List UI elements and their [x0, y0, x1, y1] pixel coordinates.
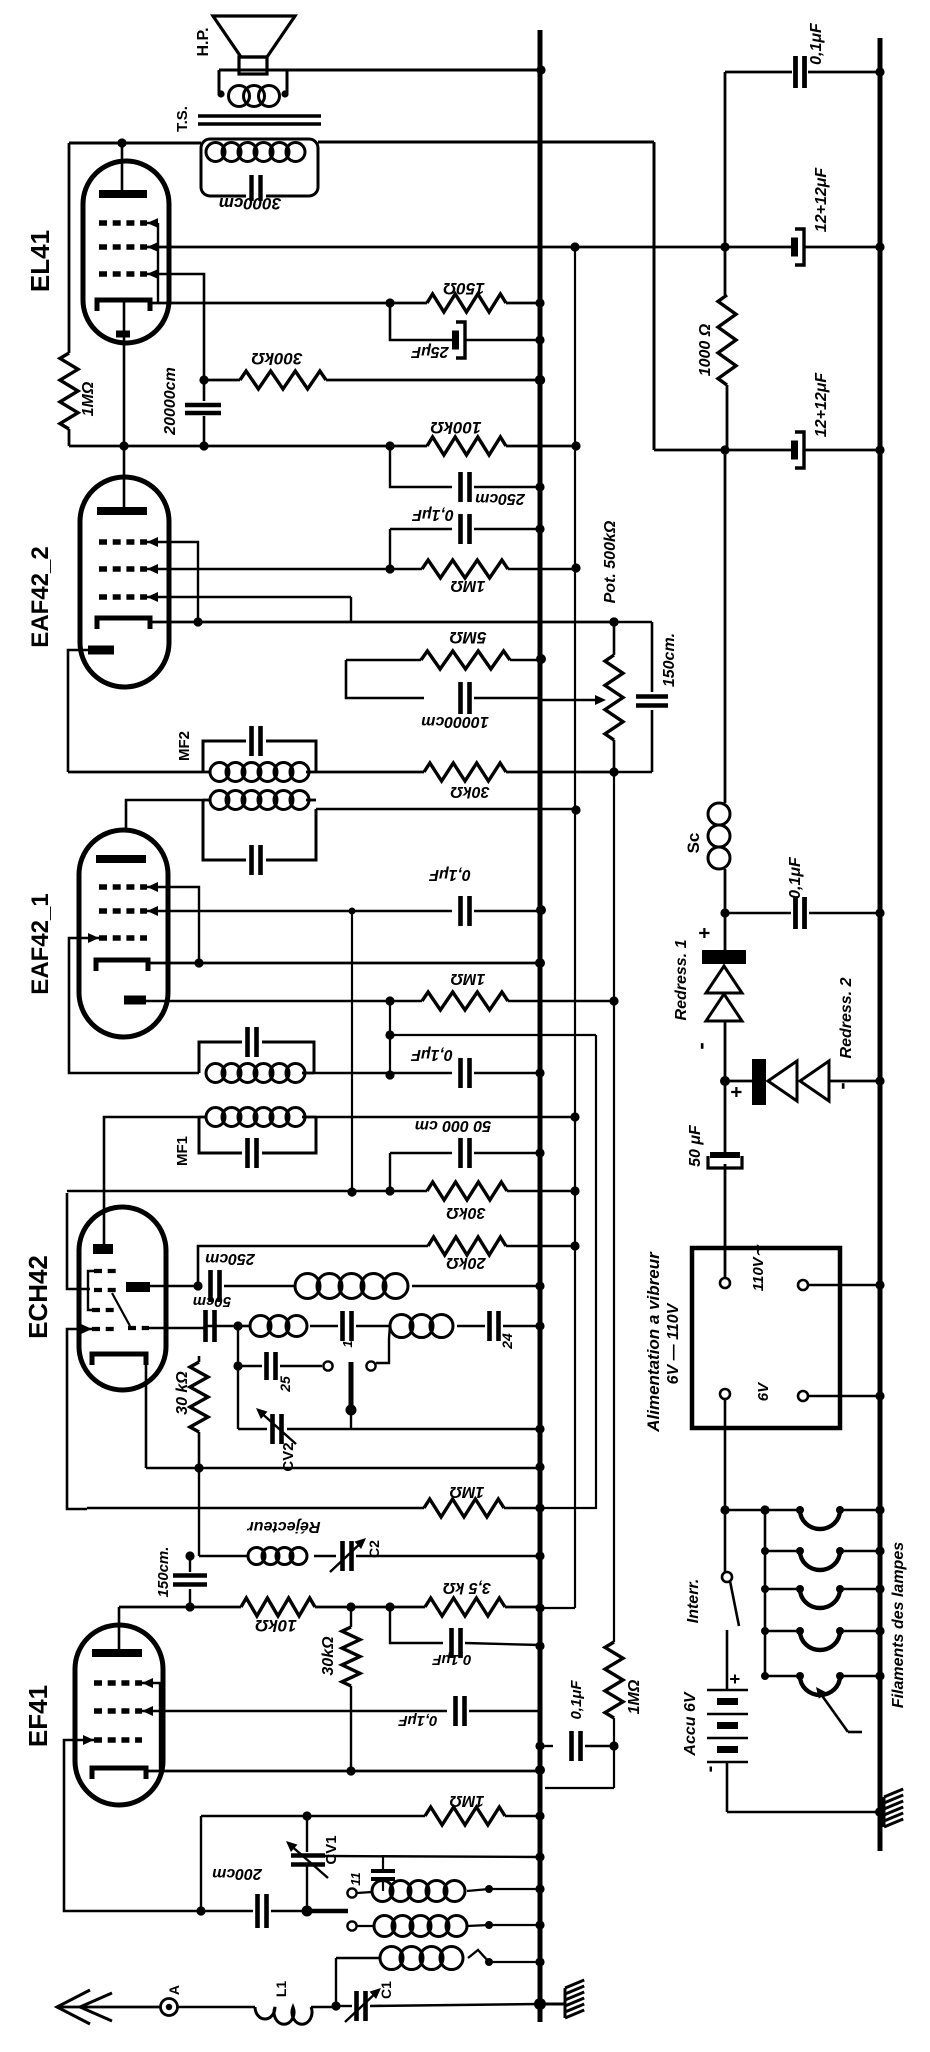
EAF42_1 grid g3: [99, 882, 158, 892]
terminal ant coil 2: [347, 1921, 374, 1930]
label A: [166, 1985, 182, 1995]
svg-text:Filaments des lampes: Filaments des lampes: [890, 1542, 907, 1708]
label 30kohm EF41: [320, 1636, 337, 1676]
resistor 1Mohm (osc): [425, 1807, 505, 1825]
wire plate decoupling branch: [390, 446, 452, 487]
wire raw B+ line y450: [654, 445, 792, 454]
svg-text:ECH42: ECH42: [23, 1255, 53, 1339]
label plus redress1: [694, 927, 716, 939]
junction rect node: [720, 1076, 730, 1086]
wire EAF42_1 diode line: [146, 996, 422, 1005]
resistor 1Mohm (EAF42_2 grid): [422, 560, 508, 578]
wire cap to right bus y247: [804, 242, 885, 251]
label 0.1uF EF41a: [432, 1651, 472, 1668]
wire 10000cm to wiper: [474, 697, 540, 700]
EAF42_2 grid g2: [99, 564, 158, 574]
wire feedback to 24: [457, 1325, 485, 1328]
svg-text:EL41: EL41: [25, 230, 55, 292]
svg-text:0,1μF: 0,1μF: [428, 866, 471, 883]
EAF42_2 cathode: [97, 618, 150, 629]
svg-text:+: +: [725, 1674, 745, 1685]
transformer T.S. core: [198, 116, 321, 124]
label 11: [348, 1872, 363, 1886]
svg-text:-: -: [829, 1082, 854, 1089]
vibrator terminal 6V right: [798, 1391, 885, 1401]
svg-text:24: 24: [499, 1333, 515, 1350]
wire filament rail: [764, 1510, 767, 1676]
vibrator terminal 110V top-left: [720, 1278, 730, 1288]
inductor antenna coil 2: [374, 1916, 545, 1937]
wire 10k line to 3.5k: [315, 1602, 425, 1611]
EAF42_2 grid g3: [99, 537, 158, 547]
label Rejecteur: [247, 1518, 321, 1535]
label Alimentation: [644, 1251, 663, 1433]
wire screens line x575: [541, 247, 575, 1608]
capacitor 250cm (EAF42_2): [461, 472, 470, 502]
filament 1: [761, 1505, 885, 1529]
wire diode RC links x390: [385, 1001, 394, 1080]
wire osc tank to bus: [412, 1281, 545, 1290]
filament 3: [761, 1584, 885, 1608]
tube EAF42_1: [79, 830, 168, 1037]
wire ECH42 g1 AVC: [67, 1329, 92, 1509]
wire EL41 g2 line: [147, 246, 540, 249]
svg-text:1: 1: [340, 1340, 355, 1347]
wire g2 cap to bus: [469, 1710, 540, 1713]
wire EF41 g1 lead: [64, 1740, 190, 1911]
wire 3.5k to bus: [505, 1603, 545, 1612]
label 200cm: [212, 1865, 263, 1882]
wire pot top to 150cm: [614, 621, 652, 624]
label Redress. 2: [838, 977, 855, 1058]
label minus battery: [699, 1766, 721, 1773]
label 6V-110V: [665, 1302, 682, 1384]
wire vibrator 6V down: [720, 1399, 729, 1572]
EL41 grid g3: [99, 218, 158, 228]
wire 0.1uF to bus y1645: [465, 1641, 545, 1650]
wire 30k to pot bottom: [506, 771, 614, 774]
svg-text:50cm: 50cm: [193, 1293, 231, 1310]
label minus redress1: [688, 1042, 713, 1049]
svg-text:0,1μF: 0,1μF: [432, 1651, 472, 1668]
transformer MF2 secondary box: [203, 741, 316, 772]
transformer T.S. primary coil: [206, 143, 305, 162]
wire pot wiper arrow: [540, 695, 606, 705]
wire EF41 cathode line: [146, 1765, 545, 1775]
label 0.1uF EAF42_1 g2: [428, 866, 471, 883]
label EL41: [25, 230, 55, 292]
wire osc drop x201: [196, 1816, 205, 1916]
label ECH42: [23, 1255, 53, 1339]
capacitor 50000cm: [461, 1138, 470, 1168]
svg-text:Alimentation a vibreur: Alimentation a vibreur: [644, 1251, 663, 1433]
svg-text:H.P.: H.P.: [195, 27, 212, 56]
ECH42 cathode: [92, 1354, 146, 1365]
CV2 arrow: [256, 1408, 296, 1444]
svg-text:1MΩ: 1MΩ: [80, 381, 97, 416]
tube EF41: [75, 1625, 163, 1805]
capacitor 1 (padder): [310, 1311, 390, 1341]
label CV1: [323, 1835, 340, 1864]
label MF2: [176, 731, 193, 761]
label minus redress2: [829, 1082, 854, 1089]
wire osc line y1816: [201, 1811, 425, 1820]
svg-text:+: +: [694, 927, 716, 939]
capacitor 150cm (pot): [636, 622, 668, 772]
svg-text:0,1μF: 0,1μF: [568, 1680, 585, 1720]
svg-text:5MΩ: 5MΩ: [450, 628, 487, 647]
svg-text:Interr.: Interr.: [685, 1579, 702, 1623]
svg-text:C2: C2: [366, 1540, 382, 1558]
svg-text:0,1μF: 0,1μF: [808, 22, 825, 65]
wire g2 bypass EF41: [390, 1607, 443, 1643]
inductor osc grid coil: [240, 1316, 307, 1337]
wire 30k screen to x575: [507, 1186, 580, 1195]
svg-text:1MΩ: 1MΩ: [449, 1792, 484, 1809]
wire 25uF branch: [390, 303, 453, 340]
wire battery to ground: [727, 1807, 885, 1817]
svg-text:30kΩ: 30kΩ: [450, 783, 490, 800]
wire osc cathode line y1468: [146, 1462, 545, 1472]
svg-text:12+12μF: 12+12μF: [813, 167, 830, 233]
wire speaker top line: [219, 65, 546, 93]
wire EAF42_1 g3 link: [147, 887, 204, 968]
label 0.1uF rect: [787, 856, 804, 899]
label 24: [499, 1333, 515, 1350]
capacitor 12+12uF lower: [791, 432, 804, 468]
wire MF2 secondary line to 30k: [316, 771, 424, 774]
wire MF1 primary right to screens: [316, 1112, 580, 1121]
tube EL41: [83, 161, 169, 343]
wire 50000cm to bus: [474, 1148, 545, 1157]
wire screen node line y247 right: [540, 242, 792, 251]
EAF42_1 diode plate: [124, 996, 146, 1005]
label Filaments des lampes: [890, 1542, 907, 1708]
wire 0.1uF line (rect): [720, 908, 791, 917]
label plus battery: [725, 1674, 745, 1685]
svg-text:CV1: CV1: [323, 1835, 340, 1864]
EAF42_2 diode plate: [88, 646, 114, 655]
svg-text:Réjecteur: Réjecteur: [247, 1518, 321, 1535]
resistor 1000ohm: [718, 295, 736, 385]
label Redress. 1: [673, 939, 690, 1020]
speaker voice coil: [217, 86, 288, 107]
wire 1M osc to bus: [505, 1811, 545, 1820]
svg-text:Redress. 2: Redress. 2: [838, 977, 855, 1058]
wire EF41 g2 line: [142, 1710, 447, 1713]
transformer T.S. primary box: [201, 139, 318, 196]
resistor 300kohm: [240, 371, 326, 389]
EL41 grid g1: [99, 269, 158, 279]
svg-text:Pot. 500kΩ: Pot. 500kΩ: [602, 520, 619, 603]
wire 20k to x575: [506, 1241, 580, 1250]
capacitor 0.1uF (EAF42_1 g2): [461, 896, 470, 926]
wire rejecteur drop x199: [198, 1468, 200, 1556]
capacitor 0.1uF (EF41 g2): [456, 1696, 465, 1726]
wire 1M to bus: [504, 1503, 545, 1512]
wire antenna line: [178, 2006, 255, 2009]
wire grid rail y446: [69, 441, 427, 450]
capacitor CV1: [291, 1816, 325, 1917]
svg-text:Accu 6V: Accu 6V: [682, 1691, 699, 1756]
label 5Mohm: [450, 628, 487, 647]
label 50uF: [687, 1124, 704, 1167]
svg-text:3,5 kΩ: 3,5 kΩ: [442, 1579, 491, 1596]
svg-text:50 000 cm: 50 000 cm: [415, 1117, 492, 1134]
resistor 30kohm (AVC): [424, 763, 506, 781]
inductor Sc choke: [708, 450, 730, 950]
svg-text:Sc: Sc: [684, 833, 703, 854]
label 50cm: [193, 1293, 231, 1310]
EF41 grid g3: [94, 1678, 153, 1688]
wire 250cm to bus: [474, 482, 545, 491]
svg-text:Redress. 1: Redress. 1: [673, 939, 690, 1020]
svg-text:110V∼: 110V∼: [750, 1244, 767, 1291]
capacitor 50cm: [206, 1310, 215, 1342]
label 1Mohm EL41: [80, 381, 97, 416]
wire 150ohm to bus: [506, 298, 545, 307]
label 110V: [750, 1244, 767, 1291]
potentiometer Pot. 500kohm: [605, 617, 623, 772]
label EAF42_1: [27, 893, 54, 994]
label 1Mohm ECH42: [449, 1483, 484, 1500]
C2 arrow: [330, 1538, 366, 1572]
svg-text:12+12μF: 12+12μF: [813, 372, 830, 438]
wire 0.1uF top line: [725, 71, 792, 74]
svg-text:30 kΩ: 30 kΩ: [174, 1371, 191, 1415]
svg-text:150cm.: 150cm.: [155, 1547, 172, 1598]
wire MF1 primary left to ECH42 plate: [104, 1117, 199, 1244]
resistor 1Mohm (diode load): [422, 992, 508, 1010]
svg-text:250cm: 250cm: [205, 1250, 256, 1267]
wire to right bus y913: [809, 908, 885, 917]
svg-text:250cm: 250cm: [475, 490, 526, 507]
label Pot. 500kohm: [602, 520, 619, 603]
svg-text:20000cm: 20000cm: [162, 367, 179, 436]
wire ECH42 cathode drop: [145, 1360, 148, 1468]
label 6V: [755, 1381, 772, 1401]
wire feedback coil left drop: [389, 1326, 390, 1338]
svg-text:0,1μF: 0,1μF: [787, 856, 804, 899]
label Accu 6V: [682, 1691, 699, 1756]
EAF42_1 cathode: [96, 960, 148, 971]
svg-text:10000cm: 10000cm: [421, 713, 489, 730]
label 1: [340, 1340, 355, 1347]
label 1Mohm x614: [626, 1679, 643, 1714]
EL41 cathode: [97, 300, 150, 311]
EL41 heater bar: [116, 331, 130, 338]
EF41 cathode: [92, 1768, 146, 1779]
svg-text:C1: C1: [378, 1981, 394, 1999]
svg-text:L1: L1: [273, 1981, 289, 1998]
wire B+ right bus (vertical): [878, 38, 883, 1851]
capacitor C2: [343, 1541, 545, 1571]
label EF41: [23, 1685, 53, 1747]
wire 50000cm branch: [385, 1153, 452, 1196]
wire EL41 g3 to cathode: [147, 223, 158, 303]
EL41 plate: [99, 143, 147, 198]
label 3.5kohm: [442, 1579, 491, 1596]
label 1000ohm: [697, 323, 714, 376]
resistor 1Mohm (ECH42 grid): [424, 1499, 504, 1517]
wire to right bus top: [808, 67, 885, 76]
wire 25uF to bus: [466, 335, 545, 344]
label 1Mohm diode: [450, 970, 485, 987]
label 0.1uF EAF42_2: [411, 506, 454, 523]
terminal switch: [366, 1338, 389, 1371]
resistor 5Mohm: [346, 651, 510, 669]
svg-text:25: 25: [277, 1376, 293, 1393]
label 1Mohm osc: [449, 1792, 484, 1809]
label 30kohm cathode: [174, 1371, 191, 1415]
wire EAF42_2 g1 to cathode link: [147, 597, 351, 622]
inductor L1: [255, 2007, 336, 2024]
resistor 3.5kohm: [425, 1598, 505, 1616]
wire EL41 cathode line: [150, 298, 427, 307]
svg-text:200cm: 200cm: [212, 1865, 263, 1882]
svg-text:6V: 6V: [755, 1381, 772, 1401]
rectifier Redress.2: [725, 1059, 885, 1105]
CV1 arrow: [286, 1841, 328, 1878]
wire 0.1uF MF1 to bus: [474, 1068, 545, 1077]
capacitor 50uF: [708, 1081, 742, 1277]
svg-text:3000cm: 3000cm: [219, 194, 281, 213]
filament 4: [761, 1626, 885, 1650]
wire cap to right bus y450: [804, 445, 885, 454]
label 0.1uF top right: [808, 22, 825, 65]
resistor 10kohm: [241, 1598, 315, 1616]
svg-text:MF2: MF2: [176, 731, 193, 761]
junction bus bottom: [534, 1998, 546, 2010]
resistor 30kohm (ECH42 cathode): [190, 1356, 208, 1468]
wire filter feed x725: [720, 72, 729, 295]
capacitor 150cm (EF41): [173, 1551, 207, 1611]
svg-text:300kΩ: 300kΩ: [251, 349, 302, 368]
EAF42_1 grid g1: [88, 933, 147, 943]
label 150cm pot: [661, 633, 678, 687]
EL41 grid g2: [99, 242, 158, 252]
resistor 30kohm (ECH42 screen): [427, 1182, 507, 1200]
wire EL41 cathode drop / EAF42_2 plate riser: [123, 300, 126, 508]
label 10000cm: [421, 713, 489, 730]
wire 1M bottom: [545, 1718, 619, 1788]
resistor 100kohm: [427, 437, 506, 455]
svg-text:MF1: MF1: [174, 1136, 191, 1166]
wire g2 bypass to bus: [474, 905, 546, 915]
capacitor 0.1uF (EF41 plate side): [452, 1628, 461, 1658]
label 0.1uF EF41b: [398, 1712, 438, 1729]
resistor 150ohm: [427, 294, 506, 312]
wire main chassis bus (vertical): [538, 30, 543, 2022]
wire EAF42_2 cathode line to pot: [150, 617, 619, 626]
wire g1 node: [199, 375, 240, 384]
svg-text:1MΩ: 1MΩ: [450, 970, 485, 987]
resistor 1Mohm (EL41 grid): [60, 143, 78, 446]
EF41 grid g2: [94, 1706, 153, 1716]
inductor Rejecteur: [199, 1548, 336, 1565]
wire 300kohm to bus: [326, 375, 545, 385]
antenna symbol: [57, 1990, 160, 2024]
svg-text:T.S.: T.S.: [174, 106, 191, 132]
svg-text:EAF42_2: EAF42_2: [27, 546, 54, 647]
capacitor 0.1uF (x614): [535, 1731, 614, 1761]
label 250cm osc: [205, 1250, 256, 1267]
EF41 plate: [92, 1607, 142, 1657]
wire EAF42_1 g2 line: [147, 908, 452, 915]
capacitor 12+12uF upper: [791, 229, 804, 265]
EAF42_1 plate: [96, 855, 146, 863]
svg-text:11: 11: [348, 1872, 363, 1886]
svg-text:6V — 110V: 6V — 110V: [665, 1302, 682, 1384]
wire screen feed x352: [347, 911, 356, 1197]
battery Accu 6V: [707, 1684, 748, 1812]
ECH42 triode plate: [126, 1282, 197, 1292]
label 100kohm: [430, 418, 481, 437]
capacitor CV2: [238, 1414, 545, 1444]
wire 1Mohm to AF line: [508, 1000, 614, 1003]
wire AVC line y1508: [87, 1507, 424, 1510]
wire 100kohm to screens line: [506, 441, 581, 450]
capacitor MF2 secondary: [252, 726, 261, 756]
ECH42 screen grids: [88, 1271, 117, 1310]
svg-text:150cm.: 150cm.: [661, 633, 678, 687]
label H.P.: [195, 27, 212, 56]
label 150ohm: [443, 279, 485, 298]
label C2: [366, 1540, 382, 1558]
svg-text:-: -: [688, 1042, 713, 1049]
transformer MF1 secondary coil: [206, 1064, 314, 1083]
transformer MF2 primary box: [203, 800, 316, 860]
wire g2 bypass branch: [390, 529, 452, 569]
C1 arrow: [345, 1988, 381, 2022]
svg-text:A: A: [166, 1985, 182, 1995]
EAF42_1 grid g2: [99, 906, 158, 916]
label 10kohm: [255, 1616, 297, 1635]
wire 1000ohm bottom: [726, 385, 729, 450]
svg-text:30kΩ: 30kΩ: [446, 1204, 486, 1221]
wire AF line x614: [609, 772, 618, 1642]
wire EF41 g3 link: [142, 1683, 160, 1771]
svg-text:30kΩ: 30kΩ: [320, 1636, 337, 1676]
capacitor 11 (trimmer): [371, 1857, 395, 1891]
wire diode lead EAF42_2: [68, 650, 88, 772]
label 30kohm screen: [446, 1204, 486, 1221]
label 50000cm: [415, 1117, 492, 1134]
svg-text:EAF42_1: EAF42_1: [27, 893, 54, 994]
speaker magnet: [239, 57, 267, 74]
label 150cm EF41: [155, 1547, 172, 1598]
svg-text:25μF: 25μF: [410, 343, 449, 360]
transformer MF2 primary coil: [203, 791, 316, 810]
svg-text:20kΩ: 20kΩ: [446, 1254, 487, 1271]
svg-text:EF41: EF41: [23, 1685, 53, 1747]
wire 1Mohm to screens line: [508, 563, 581, 572]
svg-text:0,1μF: 0,1μF: [410, 1046, 453, 1063]
svg-text:50 μF: 50 μF: [687, 1124, 704, 1167]
EAF42_2 plate: [97, 507, 147, 515]
wire 24 to bus: [503, 1321, 545, 1330]
capacitor 0.1uF top right: [796, 56, 805, 88]
label 0.1uF x614: [568, 1680, 585, 1720]
capacitor 24: [490, 1311, 499, 1341]
ground main bus: [545, 1980, 584, 2018]
resistor 20kohm (osc anode): [193, 1237, 506, 1291]
EF41 grid g1: [83, 1735, 142, 1745]
svg-text:0,1μF: 0,1μF: [411, 506, 454, 523]
wire T.S. secondary to B+ node: [318, 141, 654, 144]
speaker H.P. horn: [213, 16, 295, 57]
capacitor 0.1uF (MF1 sec): [461, 1058, 470, 1088]
